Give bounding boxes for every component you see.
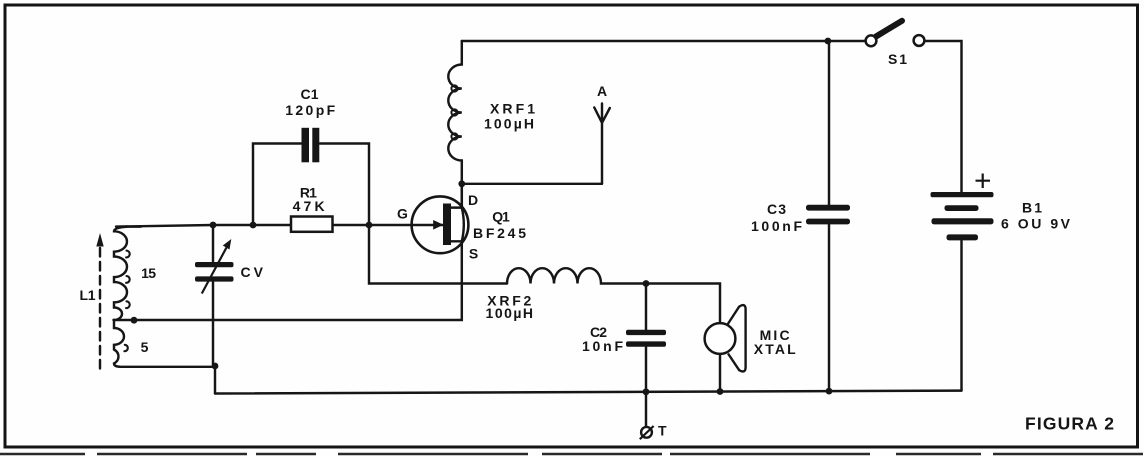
wire mic bottom xyxy=(719,354,721,392)
wire battery bottom xyxy=(960,241,962,391)
wire source to tap xyxy=(114,241,462,320)
wire top bus xyxy=(462,40,866,42)
svg-text:100nF: 100nF xyxy=(751,218,802,234)
wire gate to XRF2 xyxy=(369,225,507,284)
svg-text:15: 15 xyxy=(141,265,156,281)
wire gate xyxy=(116,225,443,227)
svg-text:S: S xyxy=(469,245,478,261)
microphone MIC body xyxy=(728,305,746,371)
XRF1 winding curls xyxy=(451,85,457,91)
wire mic feed xyxy=(646,284,720,324)
transistor Q1 gate arrow xyxy=(433,220,443,230)
svg-text:C1: C1 xyxy=(301,86,319,102)
switch S1 contacts xyxy=(866,35,877,46)
capacitor CV leads xyxy=(212,225,214,366)
svg-text:C3: C3 xyxy=(767,201,786,217)
wire S1 to battery xyxy=(924,41,961,192)
capacitor C2 plates xyxy=(626,330,666,335)
wire antenna feed xyxy=(462,183,602,185)
transistor Q1 body xyxy=(412,196,469,253)
svg-text:100µH: 100µH xyxy=(484,116,534,132)
battery plus sign xyxy=(976,174,991,189)
inductor L1 xyxy=(114,227,215,367)
terminal T xyxy=(641,427,652,438)
wire C3 branch upper xyxy=(828,41,830,205)
inductor XRF1 xyxy=(448,41,462,208)
antenna A xyxy=(594,104,610,184)
svg-text:Q1: Q1 xyxy=(492,208,510,224)
capacitor C1 plates xyxy=(302,128,310,163)
L1 core arrowhead xyxy=(96,233,103,247)
inductor XRF2 xyxy=(507,268,646,283)
svg-text:10nF: 10nF xyxy=(582,338,623,354)
resistor R1 xyxy=(291,217,333,232)
transistor Q1 gate bar xyxy=(443,204,451,246)
capacitor C1 bracket xyxy=(253,144,369,226)
svg-text:A: A xyxy=(597,83,607,99)
junction node dots xyxy=(210,222,217,229)
svg-text:T: T xyxy=(658,423,667,439)
svg-text:FIGURA 2: FIGURA 2 xyxy=(1025,414,1114,434)
svg-text:6 OU 9V: 6 OU 9V xyxy=(1001,215,1071,231)
svg-text:L1: L1 xyxy=(80,287,96,303)
svg-text:5: 5 xyxy=(141,339,149,355)
switch S1 lever xyxy=(876,21,902,37)
svg-text:100µH: 100µH xyxy=(486,305,534,321)
L1 core dashed arrow xyxy=(99,246,101,369)
battery B1 plates xyxy=(931,192,994,197)
svg-text:D: D xyxy=(468,192,478,208)
wire C2 branch and T branch xyxy=(645,284,647,427)
svg-text:47K: 47K xyxy=(293,198,325,214)
capacitor CV arrow xyxy=(202,248,227,294)
svg-text:XTAL: XTAL xyxy=(754,341,796,357)
capacitor C3 plates xyxy=(806,205,850,211)
svg-text:120pF: 120pF xyxy=(285,102,335,118)
wire C3 branch lower xyxy=(828,225,830,392)
svg-text:G: G xyxy=(397,205,408,221)
bottom scan artifact line xyxy=(0,453,1144,455)
L1 winding curls xyxy=(124,251,129,352)
capacitor CV plates xyxy=(195,262,234,267)
svg-text:BF245: BF245 xyxy=(473,225,526,241)
transistor Q1 leads xyxy=(451,184,464,242)
svg-text:B1: B1 xyxy=(1022,200,1042,216)
wire bottom bus xyxy=(215,391,962,394)
wire L1 bottom to bus xyxy=(214,367,216,394)
